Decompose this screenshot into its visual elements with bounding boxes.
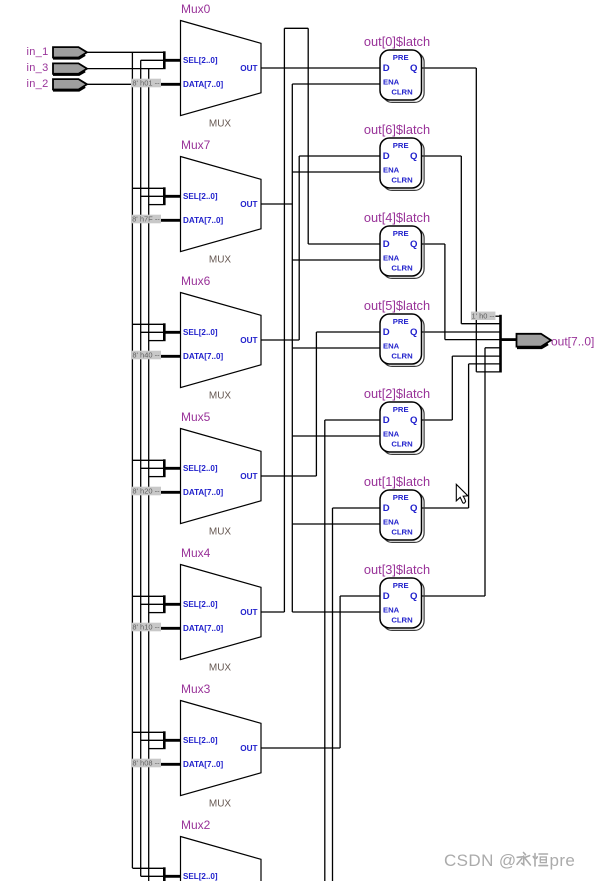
wire net Mux5.OUT to out[5]$latch D [261, 475, 316, 477]
mux Mux5 [181, 429, 262, 524]
svg-text:PRE: PRE [393, 53, 409, 62]
svg-text:OUT: OUT [240, 472, 257, 481]
svg-text:MUX: MUX [209, 119, 232, 130]
wire Mux6 DATA bus stub [159, 355, 181, 358]
svg-text:PRE: PRE [393, 581, 409, 590]
svg-text:SEL[2..0]: SEL[2..0] [183, 56, 218, 65]
svg-text:SEL[2..0]: SEL[2..0] [183, 328, 218, 337]
svg-text:DATA[7..0]: DATA[7..0] [183, 216, 223, 225]
wire ENA tap to latch row 1 [292, 171, 380, 173]
svg-text:MUX: MUX [209, 391, 232, 402]
wire Mux3 DATA bus stub [159, 763, 181, 766]
svg-text:CSDN @: CSDN @ [444, 851, 517, 870]
node Mux6 SEL bus gather bar [163, 323, 166, 341]
wire select bus line A (in_1 net vertical) [131, 52, 133, 868]
mux Mux2 [181, 837, 262, 881]
svg-text:in_3: in_3 [27, 62, 49, 74]
svg-text:CLRN: CLRN [391, 88, 413, 97]
wire in_1 to Mux0 SEL tap [87, 51, 163, 53]
svg-text:pre: pre [550, 851, 576, 870]
svg-text:DATA[7..0]: DATA[7..0] [183, 352, 223, 361]
svg-text:Mux6: Mux6 [181, 274, 211, 288]
node out[7..0] bus gather bar [499, 315, 502, 373]
svg-text:Mux5: Mux5 [181, 410, 211, 424]
wire Mux4 SEL tap bit B [141, 603, 163, 605]
wire ENA tap to latch row 6 [292, 611, 380, 613]
wire ENA tap to latch row 3 [292, 347, 380, 349]
svg-text:CLRN: CLRN [391, 528, 413, 537]
svg-text:OUT: OUT [240, 336, 257, 345]
wire Mux5 SEL tap bit B [141, 467, 163, 469]
wire Mux5 DATA bus stub [159, 491, 181, 494]
wire select bus line C (in_3 net vertical) [148, 69, 150, 881]
wire Mux0 DATA bus stub [159, 83, 181, 86]
wire Mux5 SEL bus stub [164, 467, 181, 470]
mux Mux0 [181, 21, 262, 116]
wire Mux5 SEL tap bit C [149, 476, 163, 478]
svg-text:8' h7F --: 8' h7F -- [132, 215, 160, 224]
svg-text:SEL[2..0]: SEL[2..0] [183, 600, 218, 609]
svg-text:OUT: OUT [240, 608, 257, 617]
mux Mux3 [181, 701, 262, 796]
svg-text:8' h10 --: 8' h10 -- [132, 623, 160, 632]
value label constant 8' h20 -- for Mux5 DATA [131, 487, 161, 496]
svg-text:D: D [383, 503, 390, 514]
svg-text:MUX: MUX [209, 527, 232, 538]
svg-text:SEL[2..0]: SEL[2..0] [183, 872, 218, 881]
wire ENA tap to latch row 4 [292, 435, 380, 437]
wire in_3 to Mux0 SEL tap [87, 68, 163, 70]
svg-text:SEL[2..0]: SEL[2..0] [183, 464, 218, 473]
watermark [444, 851, 548, 870]
wire net out[3]$latch Q to bus [422, 595, 486, 597]
wire net out[6]$latch Q to bus [422, 155, 462, 157]
mouse cursor [456, 484, 468, 503]
wire Mux4 SEL tap bit A [132, 595, 163, 597]
wire ENA tap to latch row 2 [292, 259, 380, 261]
wire Mux3 SEL tap bit B [141, 739, 163, 741]
svg-text:8' h20 --: 8' h20 -- [132, 487, 160, 496]
svg-text:ENA: ENA [383, 517, 400, 526]
latch out[1]$latch [383, 492, 425, 542]
wire net out[4]$latch Q to bus [422, 243, 445, 245]
wire net out[5]$latch Q to bus [422, 331, 500, 333]
wire ENA tap to latch row 5 [292, 523, 380, 525]
svg-text:D: D [383, 415, 390, 426]
svg-text:out[1]$latch: out[1]$latch [364, 474, 430, 489]
svg-text:MUX: MUX [209, 663, 232, 674]
wire Mux3 SEL tap bit C [149, 748, 163, 750]
svg-text:Mux3: Mux3 [181, 682, 211, 696]
svg-text:D: D [383, 591, 390, 602]
node Mux2 SEL bus gather bar [163, 867, 166, 881]
svg-text:Mux4: Mux4 [181, 546, 211, 560]
value label constant 8' h10 -- for Mux4 DATA [131, 623, 161, 632]
svg-text:PRE: PRE [393, 405, 409, 414]
svg-text:out[3]$latch: out[3]$latch [364, 562, 430, 577]
wire Mux4 DATA bus stub [159, 627, 181, 630]
svg-text:in_1: in_1 [27, 46, 49, 58]
svg-text:ENA: ENA [383, 165, 400, 174]
svg-text:ENA: ENA [383, 77, 400, 86]
wire Mux4 SEL bus stub [164, 603, 181, 606]
node Mux4 SEL bus gather bar [163, 595, 166, 613]
svg-text:CLRN: CLRN [391, 616, 413, 625]
mux Mux4 [181, 565, 262, 660]
latch out[6]$latch [383, 140, 425, 190]
wire Mux2 SEL tap bit B [141, 875, 163, 877]
svg-text:DATA[7..0]: DATA[7..0] [183, 488, 223, 497]
wire net out[0]$latch Q to bus [422, 67, 477, 69]
svg-text:DATA[7..0]: DATA[7..0] [183, 80, 223, 89]
svg-text:Q: Q [410, 591, 418, 602]
svg-text:OUT: OUT [240, 744, 257, 753]
svg-text:MUX: MUX [209, 799, 232, 810]
svg-text:Q: Q [410, 151, 418, 162]
svg-text:8' h01 --: 8' h01 -- [132, 79, 160, 88]
latch out[3]$latch [383, 580, 425, 630]
svg-text:out[0]$latch: out[0]$latch [364, 34, 430, 49]
wire net Mux6.OUT to out[6]$latch D [261, 339, 299, 341]
svg-text:out[6]$latch: out[6]$latch [364, 122, 430, 137]
svg-text:OUT: OUT [240, 64, 257, 73]
wire Mux0 SEL mid tap [141, 59, 163, 61]
svg-text:Q: Q [410, 63, 418, 74]
svg-text:1' h0 --: 1' h0 -- [471, 311, 495, 320]
wire select bus line B (in_2 net vertical) [140, 60, 142, 876]
svg-text:Q: Q [410, 415, 418, 426]
value label constant 8' h7F -- for Mux7 DATA [131, 215, 161, 224]
latch out[0]$latch [383, 52, 425, 102]
wire Mux3 SEL bus stub [164, 739, 181, 742]
svg-text:8' h40 --: 8' h40 -- [132, 351, 160, 360]
node Mux0 SEL bus gather bar [163, 51, 166, 69]
mux Mux7 [181, 157, 262, 252]
node Mux5 SEL bus gather bar [163, 459, 166, 477]
latch out[4]$latch [383, 228, 425, 278]
wire net Mux0.OUT to out[0]$latch D [261, 67, 380, 69]
input pin in_3 [53, 63, 87, 73]
svg-text:CLRN: CLRN [391, 264, 413, 273]
value label constant 8' h40 -- for Mux6 DATA [131, 351, 161, 360]
input pin in_1 [53, 47, 87, 57]
svg-text:SEL[2..0]: SEL[2..0] [183, 736, 218, 745]
svg-text:Mux7: Mux7 [181, 138, 211, 152]
wire Mux0 SEL bus stub [164, 59, 181, 62]
svg-text:CLRN: CLRN [391, 352, 413, 361]
svg-text:ENA: ENA [383, 253, 400, 262]
mux Mux6 [181, 293, 262, 388]
svg-text:ENA: ENA [383, 429, 400, 438]
wire in_2 to select line B [87, 83, 141, 85]
svg-text:Mux0: Mux0 [181, 2, 211, 16]
svg-text:ENA: ENA [383, 341, 400, 350]
svg-text:Q: Q [410, 239, 418, 250]
input pin in_2 [53, 79, 87, 89]
latch out[2]$latch [383, 404, 425, 454]
wire net out[1]$latch Q to bus [422, 507, 469, 509]
svg-text:CLRN: CLRN [391, 176, 413, 185]
svg-text:SEL[2..0]: SEL[2..0] [183, 192, 218, 201]
svg-text:PRE: PRE [393, 141, 409, 150]
wire Mux7 SEL bus stub [164, 195, 181, 198]
wire Mux7 DATA bus stub [159, 219, 181, 222]
svg-text:out[5]$latch: out[5]$latch [364, 298, 430, 313]
wire Mux5 SEL tap bit A [132, 459, 163, 461]
wire constant 1'h0 lead [495, 315, 499, 317]
svg-text:out[7..0]: out[7..0] [551, 335, 594, 349]
latch out[5]$latch [383, 316, 425, 366]
svg-text:OUT: OUT [240, 200, 257, 209]
svg-text:Mux2: Mux2 [181, 818, 211, 832]
value label constant 1'h0 for out bus bit7 [471, 312, 496, 320]
svg-text:in_2: in_2 [27, 78, 49, 90]
svg-text:DATA[7..0]: DATA[7..0] [183, 760, 223, 769]
wire net Mux2.OUT (offscreen) to out[2]$latch D [325, 419, 380, 421]
svg-text:DATA[7..0]: DATA[7..0] [183, 624, 223, 633]
wire net Mux4.OUT to out[4]$latch D (top bridge) [261, 611, 284, 613]
svg-text:out[4]$latch: out[4]$latch [364, 210, 430, 225]
svg-text:PRE: PRE [393, 229, 409, 238]
svg-text:D: D [383, 239, 390, 250]
wire Mux2 SEL bus stub [164, 875, 181, 878]
wire ENA tap to latch row 0 [292, 83, 380, 85]
svg-text:D: D [383, 63, 390, 74]
wire Mux4 SEL tap bit C [149, 612, 163, 614]
node Mux7 SEL bus gather bar [163, 187, 166, 205]
wire Mux3 SEL tap bit A [132, 731, 163, 733]
svg-text:out[2]$latch: out[2]$latch [364, 386, 430, 401]
wire Mux7 SEL tap bit A [132, 187, 163, 189]
svg-text:Q: Q [410, 327, 418, 338]
wire Mux6 SEL tap bit C [149, 340, 163, 342]
wire net Mux1.OUT (offscreen) to out[1]$latch D [333, 507, 381, 509]
svg-text:D: D [383, 151, 390, 162]
wire Mux6 SEL bus stub [164, 331, 181, 334]
svg-text:ENA: ENA [383, 605, 400, 614]
wire out[7..0] bus stub [501, 338, 517, 341]
svg-text:8' h08 --: 8' h08 -- [132, 759, 160, 768]
svg-text:PRE: PRE [393, 493, 409, 502]
svg-text:PRE: PRE [393, 317, 409, 326]
svg-text:Q: Q [410, 503, 418, 514]
wire Mux6 SEL tap bit B [141, 331, 163, 333]
wire net Mux3.OUT to out[3]$latch D [261, 747, 340, 749]
node Mux3 SEL bus gather bar [163, 731, 166, 749]
value label constant 8' h01 -- for Mux0 DATA [131, 79, 161, 88]
svg-text:D: D [383, 327, 390, 338]
wire Mux7 SEL tap bit C [149, 204, 163, 206]
wire net out[2]$latch Q to bus [422, 419, 453, 421]
value label constant 8' h08 -- for Mux3 DATA [131, 759, 161, 768]
wire Mux6 SEL tap bit A [132, 323, 163, 325]
output pin out[7..0] [517, 334, 552, 347]
svg-text:CLRN: CLRN [391, 440, 413, 449]
wire net Mux7.OUT latch-enable vertical [261, 203, 292, 205]
wire Mux7 SEL tap bit B [141, 195, 163, 197]
wire Mux2 SEL tap bit A [132, 867, 163, 869]
svg-text:MUX: MUX [209, 255, 232, 266]
